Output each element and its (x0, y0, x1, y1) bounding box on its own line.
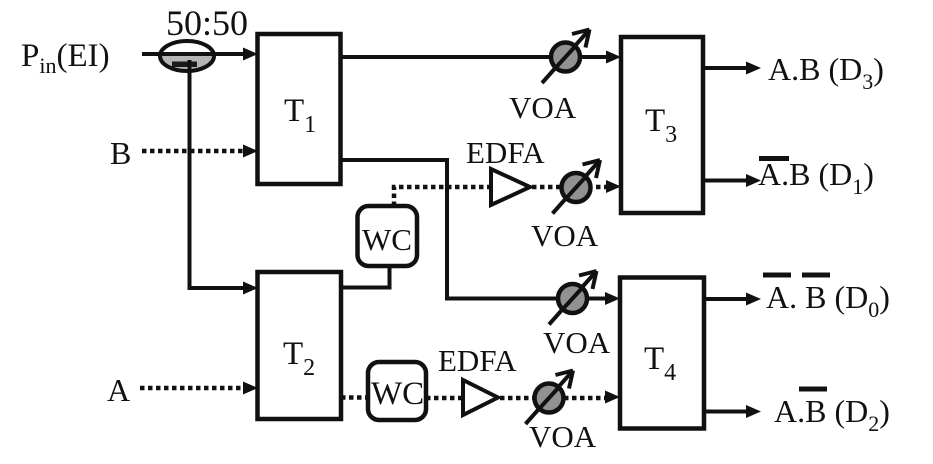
wire: T1 lower output down and right through VOA3 into T4 upper input (340, 160, 606, 299)
svg-text:VOA: VOA (531, 218, 599, 253)
svg-text:VOA: VOA (509, 90, 577, 125)
svg-text:WC: WC (371, 376, 424, 412)
wire: WC2 dashed to EDFA2 (426, 396, 461, 401)
svg-text:EDFA: EDFA (466, 135, 545, 170)
VOA1 attenuator (542, 30, 590, 84)
wire: Pin input into T1 (row 1 left) (142, 52, 250, 56)
block WC1 (358, 206, 418, 266)
svg-text:Pin(EI): Pin(EI) (21, 38, 110, 78)
svg-text:VOA: VOA (529, 419, 597, 454)
wire: T3 lower output arrow D1 (703, 179, 747, 183)
svg-text:50:50: 50:50 (166, 3, 248, 43)
overbar over A (D0) (763, 273, 791, 278)
wire: T3 upper output arrow D3 (703, 66, 747, 70)
block WC2 (368, 362, 426, 420)
svg-text:EDFA: EDFA (438, 343, 517, 378)
wire: T4 upper output arrow D0 (704, 297, 747, 301)
overbar over A (D1) (759, 156, 789, 161)
wire: T2 upper output up into WC1 bottom (341, 264, 390, 288)
amplifier EDFA1 (491, 169, 530, 205)
wire: T4 lower output arrow D2 (704, 410, 747, 414)
block T1 (258, 34, 341, 184)
wire: WC1 top dashed up and right to EDFA1 (394, 187, 489, 206)
svg-text:A: A (107, 372, 130, 408)
wire: input B dashed into T1 lower input (142, 149, 244, 154)
wire: T1 top output through VOA1 into T3 upper input (340, 55, 606, 59)
overbar over B (D2) (799, 387, 827, 392)
VOA3 attenuator (549, 271, 597, 325)
svg-text:B: B (110, 135, 131, 171)
splitter 50:50 coupler (160, 41, 214, 71)
amplifier EDFA2 (463, 380, 498, 415)
wire: splitter down-leg to T2 upper input (190, 60, 251, 288)
wire: input A dashed into T2 lower input (140, 386, 244, 391)
VOA4 attenuator (526, 371, 574, 425)
VOA2 attenuator (553, 160, 601, 214)
block T4 (620, 278, 704, 429)
block T3 (621, 37, 703, 213)
wire: EDFA1 dashed through VOA2 into T3 lower input (532, 185, 606, 190)
wire: T2 lower output dashed to WC2 (341, 395, 367, 400)
block T2 (258, 272, 342, 419)
svg-text:WC: WC (362, 222, 412, 257)
svg-text:VOA: VOA (543, 325, 611, 360)
overbar over B (D0) (802, 273, 830, 278)
wire: EDFA2 dashed through VOA4 into T4 lower input (500, 396, 605, 401)
